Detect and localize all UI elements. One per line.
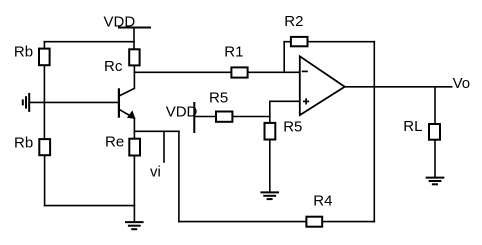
wire op-amp output to Vo xyxy=(345,86,452,88)
wire Rc bottom to collector xyxy=(133,66,135,88)
wire Rb1 bottom to Rb2 top xyxy=(43,66,45,138)
wire R5v bottom to ground xyxy=(269,140,271,192)
svg-text:R2: R2 xyxy=(284,13,303,30)
resistor R5 (horizontal) xyxy=(216,112,232,122)
svg-text:R4: R4 xyxy=(313,193,332,210)
wire stub above Rb xyxy=(43,42,45,48)
resistor R2 xyxy=(291,37,308,46)
svg-text:VDD: VDD xyxy=(104,13,136,30)
svg-text:RL: RL xyxy=(403,118,422,135)
wire vi stub xyxy=(163,131,165,162)
resistor RL xyxy=(429,124,440,140)
wire collector node to R1 xyxy=(134,71,230,73)
svg-text:R5: R5 xyxy=(283,118,302,135)
wire output down to RL xyxy=(434,87,436,123)
wire R5 to junction xyxy=(233,116,269,118)
wire feedback vertical R2 to R4 xyxy=(373,42,375,222)
op-amp plus sign xyxy=(303,98,309,104)
wire VDD rail to Rb xyxy=(44,41,134,43)
resistor R5 (vertical) xyxy=(265,123,276,140)
wire VDD2 to R5 xyxy=(194,116,215,118)
resistor Rb (bottom) xyxy=(39,139,50,155)
resistor Re xyxy=(129,139,140,156)
resistor Rb (top) xyxy=(39,49,50,66)
ground bottom center xyxy=(125,222,144,229)
svg-text:VDD: VDD xyxy=(166,104,198,121)
wire bottom left horizontal xyxy=(45,205,135,207)
wire junction up to plus input level xyxy=(269,101,271,122)
op-amp U1 xyxy=(300,56,345,115)
wire R2 left xyxy=(284,41,290,43)
resistor R4 xyxy=(306,217,322,227)
svg-text:vi: vi xyxy=(150,164,161,181)
wire right of vi down to bottom xyxy=(178,131,180,221)
ground under RL xyxy=(426,178,445,185)
wire base xyxy=(30,101,119,103)
power VDD top bar xyxy=(119,27,150,29)
wire R1 to op-amp minus input xyxy=(249,71,300,73)
resistor Rc xyxy=(129,49,139,65)
wire emitter down to Re xyxy=(133,118,135,138)
power VDD2 bar xyxy=(193,103,195,132)
ground under R5v xyxy=(260,192,279,199)
wire Re bottom to ground xyxy=(133,156,135,222)
wire R4 to right vertical xyxy=(323,221,374,223)
wire VDD bar to Rc top xyxy=(133,28,135,49)
wire RL bottom to ground xyxy=(434,141,436,178)
resistor R1 xyxy=(231,67,247,77)
wire bottom to R4 xyxy=(179,221,306,223)
op-amp minus sign xyxy=(302,70,308,72)
svg-text:Rb: Rb xyxy=(14,44,33,61)
svg-text:R1: R1 xyxy=(224,43,243,60)
svg-text:Re: Re xyxy=(105,134,124,151)
wire emitter node right xyxy=(134,130,179,132)
svg-text:Vo: Vo xyxy=(453,75,471,92)
wire R2 right xyxy=(309,41,375,43)
ground left (rotated) xyxy=(23,93,29,112)
svg-text:R5: R5 xyxy=(209,89,228,106)
svg-text:Rc: Rc xyxy=(104,58,123,75)
transistor Q1 xyxy=(119,88,135,119)
wire R2 down to minus input xyxy=(283,42,285,73)
wire to op-amp plus input xyxy=(270,100,300,102)
svg-text:Rb: Rb xyxy=(14,134,33,151)
wire Rb2 bottom down xyxy=(44,156,46,205)
